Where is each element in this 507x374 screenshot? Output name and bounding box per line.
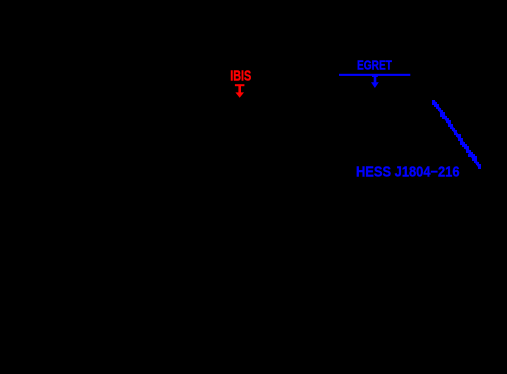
svg-text:HESS J1804−216: HESS J1804−216 [356,164,460,180]
svg-text:EGRET: EGRET [357,57,392,72]
svg-text:IBIS: IBIS [230,68,251,85]
